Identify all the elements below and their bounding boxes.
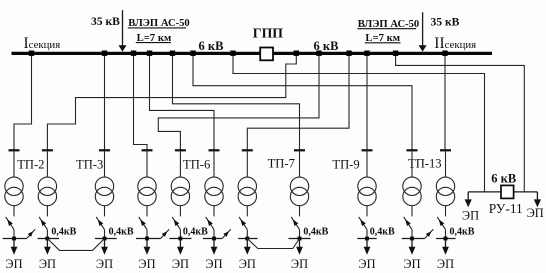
wire breaker QF3 to 0.4 kV bar (104, 230, 106, 239)
wire breaker QF5 to 0.4 kV bar (179, 230, 181, 239)
load arrow EP, column 11 (442, 239, 449, 255)
breaker QF7 blade (239, 217, 247, 230)
svg-text:ТП-9: ТП-9 (332, 157, 359, 171)
label EP, column 1 (5, 257, 22, 271)
0.4 kV bar of column 7 (238, 238, 257, 240)
svg-text:6 кВ: 6 кВ (491, 172, 516, 186)
wire feeder: bus node W6 to TP-13 transformer T10 (193, 53, 412, 149)
label EP, column 7 (239, 257, 256, 271)
node W2 on busbar (102, 51, 107, 56)
junction node on 0.4 kV bar, column 7 (245, 237, 249, 241)
wire transformer T6 to breaker QF6 (213, 206, 215, 217)
wire tick to transformer T5 (179, 150, 181, 177)
disconnector contact tick, column 1 (9, 149, 20, 151)
junction node on 0.4 kV bar, column 1 (12, 237, 16, 241)
svg-text:ЭП: ЭП (437, 257, 454, 271)
wire feeder: bus node W7 to RU-11 left input (233, 53, 485, 192)
wire tick to transformer T11 (445, 150, 447, 177)
svg-text:0,4кВ: 0,4кВ (109, 226, 134, 237)
svg-text:ТП-6: ТП-6 (183, 157, 210, 171)
transformer T6 (two windings) (205, 177, 223, 206)
wire tick to transformer T4 (146, 150, 148, 177)
breaker QF1 blade (6, 217, 14, 230)
svg-text:ЭП: ЭП (462, 208, 479, 222)
wire breaker QF8 to 0.4 kV bar (299, 230, 301, 239)
svg-text:ЭП: ЭП (527, 206, 544, 220)
RU-11 0.4 kV bar (468, 191, 537, 193)
value label: L=7 km left (underlined) (136, 32, 171, 44)
wire transformer T4 to breaker QF4 (146, 206, 148, 217)
svg-text:ЭП: ЭП (291, 257, 308, 271)
transformer T1 (two windings) (5, 177, 23, 206)
value label: 6 kV left of GPP (199, 39, 224, 53)
value label: L=7 km right (underlined) (365, 32, 401, 44)
wire tick to transformer T1 (13, 150, 15, 177)
breaker QF11 blade (437, 217, 445, 230)
wire transformer T3 to breaker QF3 (104, 206, 106, 217)
svg-text:ЭП: ЭП (172, 257, 189, 271)
breaker QF4 blade (139, 217, 147, 230)
wire tick to transformer T7 (246, 150, 248, 177)
svg-text:6 кВ: 6 кВ (199, 39, 224, 53)
breaker QF8 blade (291, 217, 299, 230)
wire transformer T7 to breaker QF7 (246, 206, 248, 217)
wire breaker QF9 to 0.4 kV bar (366, 230, 368, 239)
load arrow EP, column 5 (177, 239, 184, 255)
svg-text:ТП-3: ТП-3 (76, 157, 103, 171)
tie switch Q2 between TP-3 and TP-6 bars (161, 229, 170, 238)
breaker QF9 blade (359, 217, 367, 230)
tie link between TP-2 and TP-3 0.4 kV bars (47, 239, 104, 251)
node W10 on busbar (346, 51, 351, 56)
35 kV supply line left with arrow into section I (119, 10, 127, 51)
load arrow EP, column 9 (364, 239, 371, 255)
node W1 on busbar (29, 51, 34, 56)
disconnector contact tick, column 7 (242, 149, 253, 151)
wire feeder: bus node W9 to TP-6 transformer T5 (158, 53, 319, 149)
node W11 on busbar (364, 51, 369, 56)
svg-text:6 кВ: 6 кВ (314, 39, 339, 53)
node W5 on busbar (170, 51, 175, 56)
svg-text:0,4кВ: 0,4кВ (303, 226, 328, 237)
label EP, column 8 (291, 257, 308, 271)
wire transformer T2 to breaker QF2 (46, 206, 48, 217)
value label 0.4 kV, column 3 (109, 226, 134, 237)
transformer T3 (two windings) (95, 177, 113, 206)
wire breaker QF6 to 0.4 kV bar (213, 230, 215, 239)
label EP, column 4 (138, 257, 155, 271)
disconnector contact tick, column 2 (42, 149, 53, 151)
svg-text:ЭП: ЭП (39, 257, 56, 271)
svg-text:ЭП: ЭП (138, 257, 155, 271)
label EP, column 10 (403, 257, 420, 271)
node W13 on busbar (442, 51, 447, 56)
wire tick to transformer T8 (299, 150, 301, 177)
label ТП-13 (408, 157, 442, 171)
node W9 on busbar (316, 51, 321, 56)
junction node on 0.4 kV bar, column 10 (410, 237, 414, 241)
breaker QF2 blade (39, 217, 47, 230)
load arrow EP, column 6 (211, 239, 218, 255)
value label: 6 kV right of GPP (314, 39, 339, 53)
0.4 kV bar of column 9 (357, 238, 376, 240)
label: II section (434, 35, 476, 52)
svg-text:35 кВ: 35 кВ (91, 15, 120, 28)
svg-text:ЭП: ЭП (5, 257, 22, 271)
transformer T5 (two windings) (171, 177, 189, 206)
svg-text:0,4кВ: 0,4кВ (450, 226, 475, 237)
wire feeder: bus node W11 to TP-9 transformer T9 (366, 53, 368, 149)
wire feeder: bus node W3 to TP-3 transformer T4 (134, 53, 148, 149)
load arrow EP, column 3 (101, 239, 108, 255)
wire breaker QF10 to 0.4 kV bar (411, 230, 413, 239)
junction node on 0.4 kV bar, column 8 (298, 237, 302, 241)
transformer T8 (two windings) (290, 177, 308, 206)
disconnector contact tick, column 8 (294, 149, 305, 151)
tie switch Q3 between TP-6 and TP-7 bars (222, 229, 231, 238)
junction node on 0.4 kV bar, column 2 (46, 237, 50, 241)
disconnector contact tick, column 10 (407, 149, 418, 151)
label EP right of RU-11 (527, 206, 544, 220)
value label: VLEP AS-50 left (underlined) (128, 18, 190, 29)
load arrow EP, column 4 (144, 239, 151, 255)
tie link between TP-7 0.4 kV bars (247, 239, 299, 249)
wire feeder: bus node W12 to RU-11 right input (396, 53, 525, 192)
svg-text:ЭП: ЭП (96, 257, 113, 271)
svg-text:L=7 км: L=7 км (365, 32, 400, 44)
svg-text:ЭП: ЭП (403, 257, 420, 271)
svg-text:0,4кВ: 0,4кВ (51, 226, 76, 237)
breaker QF10 blade (404, 217, 412, 230)
disconnector contact tick, column 6 (209, 149, 220, 151)
node W6 on busbar (190, 51, 195, 56)
wire transformer T8 to breaker QF8 (299, 206, 301, 217)
wire feeder: bus node W8 to TP-2 transformer T2 (47, 53, 296, 149)
disconnector contact tick, column 5 (175, 149, 186, 151)
wire breaker QF4 to 0.4 kV bar (146, 230, 148, 239)
node W4 on busbar (147, 51, 152, 56)
label EP left of RU-11 (462, 208, 479, 222)
disconnector contact tick, column 9 (362, 149, 373, 151)
transformer T10 (two windings) (403, 177, 421, 206)
0.4 kV bar of column 11 (436, 238, 456, 240)
svg-text:ЭП: ЭП (358, 257, 375, 271)
value label 0.4 kV, column 2 (51, 226, 76, 237)
RU-11 box U2 (501, 185, 514, 198)
label EP, column 5 (172, 257, 189, 271)
wire tick to transformer T10 (411, 150, 413, 177)
wire breaker QF7 to 0.4 kV bar (246, 230, 248, 239)
wire feeder: bus node W13 to TP-13 transformer T11 (444, 53, 446, 149)
0.4 kV bar of column 6 (203, 238, 222, 240)
svg-text:РУ-11: РУ-11 (489, 201, 523, 216)
junction node on 0.4 kV bar, column 11 (444, 237, 448, 241)
disconnector contact tick, column 11 (440, 149, 451, 151)
wire transformer T5 to breaker QF5 (179, 206, 181, 217)
load arrow EP, column 8 (296, 239, 303, 255)
load arrow EP left of RU-11 (465, 192, 472, 207)
value label 6 kV at RU-11 (491, 172, 516, 186)
label EP, column 6 (205, 257, 222, 271)
wire transformer T1 to breaker QF1 (13, 206, 15, 217)
value label 0.4 kV, column 9 (370, 226, 395, 237)
breaker QF6 blade (206, 217, 214, 230)
node W3 on busbar (131, 51, 136, 56)
svg-text:ГПП: ГПП (253, 25, 284, 40)
wire transformer T9 to breaker QF9 (366, 206, 368, 217)
svg-text:0,4кВ: 0,4кВ (183, 226, 208, 237)
svg-text:35 кВ: 35 кВ (431, 15, 460, 28)
wire tick to transformer T2 (46, 150, 48, 177)
junction node on 0.4 kV bar, column 4 (145, 237, 149, 241)
label: I section (24, 35, 61, 52)
load arrow EP, column 10 (409, 239, 416, 255)
load arrow EP right of RU-11 (534, 192, 541, 207)
6 kV busbar sections I and II (12, 52, 493, 55)
wire feeder: bus node W1 to TP-2 transformer T1 (14, 53, 32, 149)
load arrow EP, column 1 (11, 239, 18, 255)
load arrow EP, column 2 (44, 239, 51, 255)
tie switch Q1 between TP-2 bars (27, 229, 36, 238)
svg-text:ЭП: ЭП (239, 257, 256, 271)
load arrow EP, column 7 (244, 239, 251, 255)
transformer T2 (two windings) (38, 177, 56, 206)
label EP, column 9 (358, 257, 375, 271)
0.4 kV bar of column 4 (136, 238, 161, 240)
breaker QF5 blade (172, 217, 180, 230)
value label 0.4 kV, column 8 (303, 226, 328, 237)
svg-text:ТП-7: ТП-7 (268, 156, 295, 170)
svg-text:ВЛЭП АС-50: ВЛЭП АС-50 (358, 19, 420, 30)
svg-text:ТП-2: ТП-2 (17, 157, 44, 171)
transformer T9 (two windings) (358, 177, 376, 206)
wire tick to transformer T6 (213, 150, 215, 177)
tie switch Q4 between TP-13 bars (425, 229, 434, 238)
node W12 on busbar (393, 51, 398, 56)
junction node on 0.4 kV bar, column 9 (365, 237, 369, 241)
value label: VLEP AS-50 right (underlined) (357, 19, 419, 30)
junction node on 0.4 kV bar, column 6 (212, 237, 216, 241)
value label: 35 kV left (91, 15, 120, 28)
label ТП-7 (268, 156, 295, 170)
wire transformer T11 to breaker QF11 (445, 206, 447, 217)
substation GPP box U1 (260, 48, 273, 61)
node W7 on busbar (230, 51, 235, 56)
0.4 kV bar of column 5 (169, 238, 191, 240)
label ТП-3 (76, 157, 103, 171)
wire breaker QF11 to 0.4 kV bar (445, 230, 447, 239)
label: GPP (253, 25, 284, 40)
wire feeder: bus node W5 to TP-7 transformer T8 (173, 53, 300, 149)
transformer T4 (two windings) (138, 177, 156, 206)
disconnector contact tick, column 4 (142, 149, 153, 151)
wire feeder: bus node W4 to TP-6 transformer T6 (150, 53, 215, 149)
0.4 kV bar of column 2 (38, 238, 59, 240)
wire feeder: bus node W10 to TP-7 transformer T7 (247, 53, 349, 149)
wire tick to transformer T9 (366, 150, 368, 177)
label EP, column 3 (96, 257, 113, 271)
svg-text:L=7 км: L=7 км (137, 32, 172, 44)
transformer T11 (two windings) (436, 177, 454, 206)
junction node on 0.4 kV bar, column 5 (179, 237, 183, 241)
0.4 kV bar of column 3 (95, 238, 117, 240)
wire transformer T10 to breaker QF10 (411, 206, 413, 217)
wire breaker QF2 to 0.4 kV bar (46, 230, 48, 239)
0.4 kV bar of column 8 (289, 238, 311, 240)
disconnector contact tick, column 3 (99, 149, 110, 151)
svg-text:0,4кВ: 0,4кВ (370, 226, 395, 237)
35 kV supply line right with arrow into section II (419, 12, 427, 51)
wire tick to transformer T3 (104, 150, 106, 177)
wire breaker QF1 to 0.4 kV bar (13, 230, 15, 239)
wire feeder: bus node W2 to TP-3 transformer T3 (104, 53, 106, 149)
svg-text:ЭП: ЭП (205, 257, 222, 271)
label ТП-9 (332, 157, 359, 171)
value label 0.4 kV, column 11 (450, 226, 475, 237)
svg-text:ТП-13: ТП-13 (408, 157, 442, 171)
label RU-11 (489, 201, 523, 216)
transformer T7 (two windings) (238, 177, 256, 206)
label EP, column 11 (437, 257, 454, 271)
value label 0.4 kV, column 5 (183, 226, 208, 237)
breaker QF3 blade (96, 217, 104, 230)
junction node on 0.4 kV bar, column 3 (103, 237, 107, 241)
node W8 on busbar (294, 51, 299, 56)
label ТП-6 (183, 157, 210, 171)
label ТП-2 (17, 157, 44, 171)
0.4 kV bar of column 1 (3, 238, 27, 240)
value label: 35 kV right (431, 15, 460, 28)
label EP, column 2 (39, 257, 56, 271)
0.4 kV bar of column 10 (402, 238, 425, 240)
